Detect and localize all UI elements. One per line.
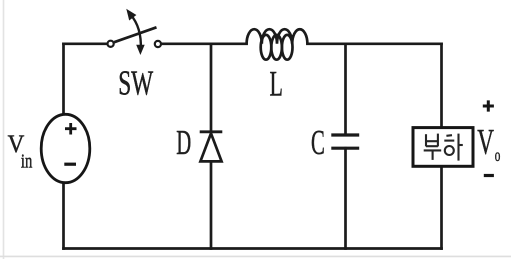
wire right vertical upper (top rail to load box) [440,44,443,128]
hangul BU: ㅂ right vertical [437,134,439,147]
capacitor C [311,124,359,162]
hangul HA: ㅏ tick [459,144,463,146]
inductor L [247,29,308,103]
hangul HA: circle of ieung [445,146,454,155]
Vo plus sign [483,100,494,111]
inductor humps [247,29,308,44]
switch arrowhead up [126,9,136,21]
inductor loop 2 [271,35,282,60]
wire diode lower (diode anode to bottom rail) [210,161,213,248]
diode D [176,124,222,162]
switch right terminal [155,41,161,47]
switch SW [108,9,161,103]
hangul HA: second bar [444,140,454,142]
load box (buha) [413,128,473,167]
svg-text:SW: SW [118,64,153,102]
output voltage Vo labels [477,100,500,175]
switch actuation arrow shaft [131,15,141,50]
capacitor top plate [331,133,359,136]
wire capacitor upper [344,44,347,135]
diode triangle [200,133,221,161]
voltage source Vin [8,114,90,182]
hangul BU: ㅜ stem [432,150,434,160]
switch left terminal [108,41,114,47]
source minus sign [64,163,76,166]
wire bottom rail [64,247,442,250]
svg-text:D: D [176,124,191,162]
wire diode upper (node A to diode cathode) [210,44,213,132]
source plus sign [65,123,77,135]
hangul BU: ㅜ horizontal [424,149,442,151]
svg-text:o: o [495,145,501,165]
diode cathode bar [200,130,223,133]
capacitor bottom plate [331,147,359,150]
wire top-mid (switch to inductor) [161,42,246,45]
inductor loop 1 [261,35,272,60]
wire capacitor lower [344,148,347,248]
svg-text:C: C [311,124,325,162]
inductor loop 3 [282,35,293,60]
svg-text:in: in [21,150,32,172]
switch blade [114,27,156,42]
hangul BU: ㅂ crossbar [426,140,438,142]
wire left vertical lower (Vin to bottom rail) [62,183,65,249]
load rectangle [413,128,473,167]
Vo minus sign [484,174,494,177]
wire top-right (inductor to load corner) [307,42,441,45]
wire top-left (Vin to switch) [64,42,108,45]
hangul HA: top tick [446,134,452,137]
hangul HA: ㅏ vertical [457,134,459,161]
source ellipse [41,114,90,182]
wire left vertical upper (top corner to Vin) [62,44,65,115]
svg-text:V: V [477,122,494,162]
hangul BU: ㅂ bottom bar [426,145,438,147]
hangul BU: ㅂ left vertical [424,134,463,161]
wire right vertical lower (load box to bottom rail) [440,166,443,248]
switch arrowhead down [136,45,145,55]
svg-text:L: L [270,63,283,103]
